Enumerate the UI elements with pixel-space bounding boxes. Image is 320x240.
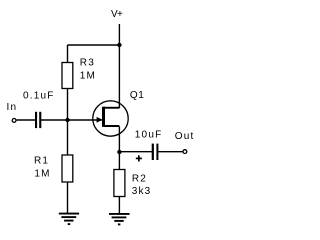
svg-text:1M: 1M xyxy=(34,169,50,180)
svg-text:R1: R1 xyxy=(34,155,49,166)
svg-text:R3: R3 xyxy=(80,57,95,68)
svg-text:Out: Out xyxy=(175,131,195,142)
svg-text:In: In xyxy=(7,102,18,113)
svg-text:10uF: 10uF xyxy=(135,129,163,140)
svg-text:Q1: Q1 xyxy=(130,90,145,101)
svg-text:V+: V+ xyxy=(111,9,123,20)
svg-text:0.1uF: 0.1uF xyxy=(23,91,55,102)
svg-text:1M: 1M xyxy=(80,70,96,81)
svg-text:3k3: 3k3 xyxy=(132,186,152,197)
svg-text:R2: R2 xyxy=(132,173,147,184)
